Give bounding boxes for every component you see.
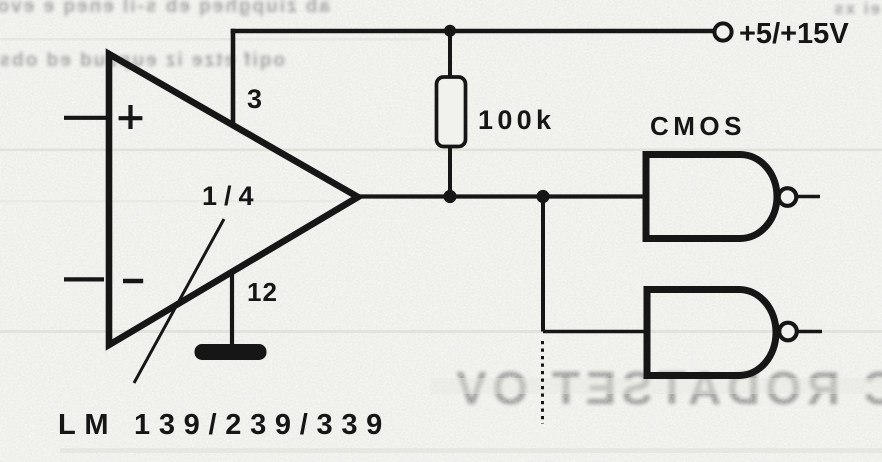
svg-text:100k: 100k [478, 105, 555, 135]
svg-text:12: 12 [247, 277, 278, 307]
svg-text:+5/+15V: +5/+15V [739, 18, 849, 50]
svg-text:1/4: 1/4 [202, 181, 261, 211]
svg-text:LM 139/239/339: LM 139/239/339 [58, 409, 391, 441]
svg-text:3: 3 [247, 84, 262, 114]
svg-text:CMOS: CMOS [650, 111, 746, 141]
